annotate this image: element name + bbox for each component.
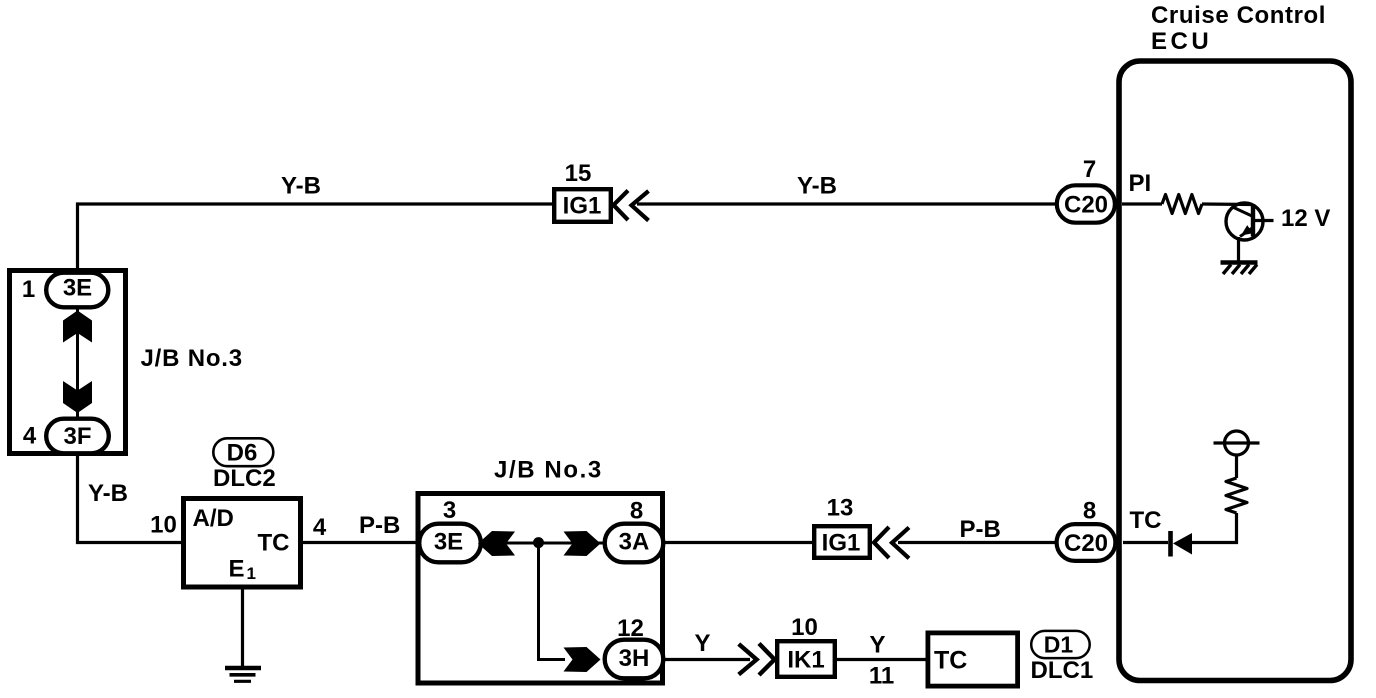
svg-text:Y-B: Y-B	[88, 480, 128, 507]
svg-text:DLC1: DLC1	[1031, 657, 1094, 684]
wire P-B to C20 8	[898, 541, 1056, 544]
chevrons after IG1 13	[874, 527, 909, 558]
wire Y-B from 3F to DLC2 pin 10	[78, 454, 182, 543]
wire P-B 3A to IG1 13	[665, 541, 813, 544]
svg-text:3A: 3A	[619, 529, 650, 556]
svg-text:3: 3	[443, 497, 456, 524]
svg-text:12 V: 12 V	[1281, 205, 1330, 232]
junction dot	[533, 537, 544, 548]
svg-text:J/B No.3: J/B No.3	[494, 457, 603, 484]
svg-text:P-B: P-B	[359, 512, 400, 539]
svg-text:11: 11	[869, 663, 894, 690]
arrow right (to 3H)	[564, 647, 601, 672]
connector IG1 pin 15	[554, 160, 611, 222]
transistor Q1 (12 V output)	[1226, 203, 1274, 240]
svg-text:3F: 3F	[63, 423, 91, 450]
TC box DLC1	[928, 633, 1018, 686]
wire E1 to ground	[241, 587, 244, 667]
svg-text:1: 1	[247, 564, 256, 583]
svg-text:Y: Y	[694, 630, 710, 657]
wire resistor to power	[1235, 455, 1238, 478]
resistor R (PI pull-up)	[1162, 195, 1202, 214]
wire emitter to ground	[1237, 237, 1240, 262]
wire Y from 3H to chevrons	[665, 658, 750, 661]
wire C20 to diode	[1123, 541, 1168, 544]
svg-text:3H: 3H	[619, 645, 650, 672]
svg-text:10: 10	[791, 614, 818, 641]
connector 3E pin 3	[419, 497, 481, 562]
connector IG1 pin 13	[814, 495, 870, 558]
svg-text:Cruise Control: Cruise Control	[1151, 2, 1326, 29]
wire from junction down to 3H	[539, 543, 566, 660]
connector 3H pin 12	[605, 615, 664, 678]
svg-text:Y: Y	[869, 632, 885, 659]
J/B No.3 center box	[418, 494, 663, 684]
chevrons before IK1	[739, 644, 775, 676]
svg-text:ECU: ECU	[1151, 28, 1212, 55]
chevrons after IG1 15	[614, 191, 649, 221]
connector D1 label	[1031, 631, 1094, 684]
connector 3F pin 4	[23, 419, 109, 454]
svg-text:P-B: P-B	[960, 516, 1001, 543]
wire P-B DLC2 to 3E	[303, 541, 419, 544]
wire diode to resistor	[1191, 513, 1237, 543]
svg-text:4: 4	[313, 514, 327, 541]
svg-text:4: 4	[23, 423, 37, 450]
connector C20 pin 8	[1057, 498, 1116, 561]
arrow down (to 3F)	[63, 381, 92, 413]
svg-text:15: 15	[565, 160, 592, 187]
connector C20 pin 7	[1057, 156, 1115, 223]
svg-text:TC: TC	[934, 647, 967, 675]
DLC2 A/D box	[184, 499, 301, 588]
connector D6 label	[213, 438, 276, 492]
svg-text:IG1: IG1	[563, 193, 602, 220]
svg-text:PI: PI	[1129, 170, 1152, 197]
label Cruise Control ECU	[1151, 2, 1326, 55]
arrow up (to 3E)	[63, 311, 92, 343]
svg-text:TC: TC	[1130, 507, 1162, 534]
svg-text:DLC2: DLC2	[213, 465, 276, 492]
J/B No.3 left box	[10, 271, 126, 454]
resistor R (TC pull-up)	[1226, 478, 1247, 513]
svg-text:IK1: IK1	[787, 647, 824, 674]
svg-text:J/B No.3: J/B No.3	[141, 345, 243, 372]
wire Y IK1 to TC box	[837, 658, 927, 661]
power supply symbol	[1214, 431, 1260, 455]
diode D (cathode to TC)	[1171, 531, 1193, 557]
ground (earth)	[225, 668, 261, 681]
svg-text:D1: D1	[1044, 632, 1074, 658]
wire between arrows center	[480, 542, 604, 545]
connector 3A pin 8	[605, 498, 664, 563]
svg-text:13: 13	[827, 495, 854, 522]
svg-text:10: 10	[150, 512, 177, 539]
svg-text:8: 8	[630, 498, 643, 525]
svg-text:IG1: IG1	[822, 530, 861, 557]
svg-text:Y-B: Y-B	[281, 173, 321, 200]
wire between arrows	[76, 308, 79, 418]
svg-text:A/D: A/D	[193, 505, 234, 532]
svg-text:Y-B: Y-B	[797, 173, 837, 200]
svg-text:3E: 3E	[63, 275, 92, 302]
svg-text:12: 12	[617, 615, 644, 642]
connector 3E pin 1	[22, 273, 108, 308]
svg-text:3E: 3E	[434, 529, 463, 556]
wire PI to resistor	[1122, 202, 1162, 205]
svg-text:C20: C20	[1064, 530, 1108, 557]
ECU box	[1119, 61, 1351, 681]
svg-text:1: 1	[22, 276, 35, 303]
wire Y-B from J/B No.3 3E up and right to IG1	[78, 204, 553, 272]
svg-text:8: 8	[1083, 498, 1096, 525]
arrow right (to 3A)	[564, 531, 601, 556]
chassis ground	[1221, 263, 1258, 275]
svg-text:E: E	[229, 556, 245, 583]
wire Y-B to C20	[637, 202, 1056, 205]
svg-text:TC: TC	[258, 530, 290, 557]
svg-text:D6: D6	[227, 440, 258, 467]
svg-text:C20: C20	[1064, 192, 1108, 219]
connector IK1 pin 10	[777, 614, 835, 677]
svg-text:7: 7	[1083, 156, 1096, 183]
arrow left (to 3E)	[478, 531, 515, 556]
wire resistor to transistor	[1202, 202, 1252, 206]
